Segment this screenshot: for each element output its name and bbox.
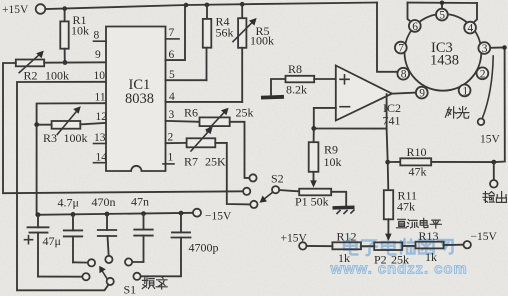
- wire pin 4 to R5 bottom: [166, 101, 243, 103]
- svg-text:3: 3: [169, 109, 175, 121]
- switch S2 middle contact: [243, 188, 250, 195]
- resistor R1 10k: [60, 9, 89, 63]
- svg-text:47n: 47n: [131, 195, 149, 209]
- resistor R12 1k: [332, 230, 361, 266]
- wire +15V top rail: [46, 3, 378, 10]
- IC3 pin 9: [416, 87, 428, 100]
- svg-text:9: 9: [95, 49, 101, 61]
- svg-text:13: 13: [94, 132, 106, 144]
- IC3 1438 ring body: [405, 14, 482, 91]
- node bus C47n junction: [141, 211, 146, 216]
- label 输出 output: [483, 192, 506, 203]
- wire R7 right to S2 bottom contact: [215, 143, 250, 205]
- svg-text:R13: R13: [419, 229, 439, 243]
- pin 8 stub: [94, 30, 107, 42]
- svg-text:6: 6: [412, 21, 418, 33]
- pin 13 stub: [94, 132, 107, 144]
- switch S1 contact C: [82, 273, 89, 280]
- label 直流电平 DC level: [397, 218, 442, 228]
- svg-text:10: 10: [94, 70, 106, 82]
- wire pin3 net to output: [490, 47, 505, 162]
- pin 14 stub: [94, 152, 108, 164]
- resistor R7 25K potentiometer: [166, 127, 227, 169]
- resistor R5 100k potentiometer: [233, 4, 274, 102]
- node feedback R9 junction: [311, 126, 316, 131]
- resistor R10 47k: [388, 145, 494, 179]
- svg-text:R7: R7: [184, 155, 198, 169]
- svg-text:100k: 100k: [64, 131, 88, 145]
- svg-text:3: 3: [482, 43, 488, 55]
- terminal +15V top-left: [2, 4, 45, 16]
- IC3 pin 6: [409, 20, 421, 33]
- resistor R4 56k: [203, 5, 234, 80]
- resistor R8 8.2k: [286, 62, 315, 97]
- node output junction: [491, 160, 496, 165]
- svg-text:S2: S2: [271, 172, 284, 186]
- node R3-pin11 junction: [34, 122, 39, 127]
- svg-text:+15V: +15V: [2, 4, 29, 16]
- svg-text:741: 741: [383, 114, 401, 128]
- capacitor C 47n: [131, 195, 153, 263]
- op-amp IC2 741: [336, 66, 401, 128]
- svg-text:15V: 15V: [480, 134, 501, 146]
- svg-text:4: 4: [468, 23, 474, 35]
- svg-text:25K: 25K: [205, 155, 226, 169]
- terminal -15V middle: [193, 209, 232, 223]
- ground bar at R8: [261, 95, 284, 100]
- svg-text:1438: 1438: [430, 53, 459, 69]
- capacitor C 470n: [92, 195, 117, 256]
- node bus C47u junction: [36, 212, 41, 217]
- wire output vertical to R10 R11: [387, 129, 389, 191]
- switch S2 top contact: [249, 174, 256, 181]
- op-amp IC1 8038 body: [106, 27, 166, 172]
- node rail-R5 junction: [240, 2, 245, 7]
- potentiometer P1 50k: [295, 189, 331, 209]
- svg-text:10k: 10k: [71, 24, 89, 38]
- node rail-R1 junction: [62, 6, 67, 11]
- wire pin 6 up to rail: [166, 5, 186, 60]
- terminal output 输出: [490, 162, 498, 188]
- wire ground to R8: [271, 79, 286, 95]
- svg-text:1: 1: [462, 85, 468, 97]
- svg-text:2: 2: [168, 132, 174, 144]
- node bus C470n junction: [105, 212, 110, 217]
- wire S2 wiper to P1: [279, 190, 299, 191]
- svg-text:25k: 25k: [391, 253, 409, 267]
- resistor R2 100k potentiometer: [16, 51, 69, 83]
- capacitor C 4700p: [141, 213, 219, 276]
- resistor R13 1k: [416, 229, 444, 264]
- wire R8 to op-amp + input: [314, 78, 336, 80]
- svg-text:470n: 470n: [92, 195, 116, 209]
- svg-text:5: 5: [439, 10, 445, 22]
- svg-text:7: 7: [169, 27, 175, 39]
- svg-text:S1: S1: [124, 283, 137, 296]
- IC3 pin 8: [397, 68, 409, 81]
- pin 7 stub: [166, 27, 180, 39]
- svg-text:R2: R2: [24, 69, 38, 83]
- wire R13 to -15V terminal: [444, 244, 464, 246]
- pin 1 stub: [163, 152, 174, 164]
- svg-text:R12: R12: [337, 230, 357, 244]
- svg-text:11: 11: [95, 92, 106, 104]
- svg-text:1: 1: [168, 152, 174, 164]
- wire - input feedback loop: [314, 94, 387, 128]
- wire P1 right to ground: [331, 192, 346, 206]
- wire R3 left to pin11 rail: [37, 124, 52, 126]
- svg-text:P2: P2: [374, 253, 387, 267]
- switch S2 bottom contact: [250, 201, 257, 208]
- resistor R6 25k potentiometer: [166, 106, 254, 132]
- svg-text:4.7μ: 4.7μ: [58, 196, 79, 210]
- svg-text:25k: 25k: [236, 106, 254, 120]
- IC3 pin 3: [478, 42, 490, 55]
- IC3 pin 7: [395, 42, 407, 55]
- svg-text:R3: R3: [43, 131, 57, 145]
- wire R3 right to pin 12: [80, 123, 106, 125]
- wire R2 to pin 9: [44, 61, 106, 63]
- svg-text:−15V: −15V: [471, 231, 498, 243]
- node rail-R4 junction: [205, 3, 210, 8]
- switch S1 contact B: [105, 256, 112, 263]
- label 频率 frequency: [142, 277, 167, 289]
- resistor R3 100k potentiometer: [43, 106, 88, 145]
- svg-text:1k: 1k: [425, 250, 437, 264]
- potentiometer P2 25k: [374, 242, 409, 266]
- svg-text:12: 12: [96, 111, 108, 123]
- svg-text:100k: 100k: [250, 34, 274, 48]
- IC3 pin 1: [459, 85, 471, 98]
- svg-text:14: 14: [96, 152, 108, 164]
- wire pin 5 to R4 bottom: [166, 79, 207, 81]
- terminal -15V bottom right: [464, 231, 498, 248]
- node rail-pin6 junction: [184, 3, 189, 8]
- wire +15V to R12: [307, 245, 333, 247]
- terminal +15V bottom: [281, 233, 308, 250]
- node R1-R2-pin9 junction: [63, 60, 68, 65]
- svg-text:2: 2: [480, 68, 486, 80]
- IC3 case lead arc: [482, 56, 493, 118]
- node IC3 pin5 junction: [440, 1, 445, 6]
- svg-text:P1 50k: P1 50k: [295, 195, 329, 209]
- terminal case 15V: [478, 119, 501, 146]
- svg-text:8038: 8038: [125, 91, 154, 107]
- wire R12 to P2: [361, 245, 374, 247]
- switch S1 contact E: [125, 258, 132, 265]
- svg-text:47k: 47k: [397, 200, 415, 214]
- switch S1 contact A: [88, 259, 95, 266]
- node R10 left junction: [385, 160, 390, 165]
- svg-text:7: 7: [398, 43, 404, 55]
- IC3 pin 5: [436, 9, 448, 22]
- capacitor C 4.7u: [58, 196, 83, 263]
- wire pin 11 down to capacitor bus: [37, 103, 106, 215]
- IC3 pin 4: [464, 22, 476, 35]
- wire C4.7u bottom to S1 contact A: [73, 261, 88, 263]
- svg-text:R6: R6: [184, 106, 198, 120]
- svg-text:1k: 1k: [338, 251, 350, 265]
- wire op-amp output to IC3 pin 9: [392, 93, 416, 94]
- node bus C4700p junction: [179, 211, 184, 216]
- svg-text:9: 9: [419, 88, 425, 100]
- svg-text:R8: R8: [288, 62, 302, 76]
- watermark 电子电路图网: [344, 239, 453, 256]
- svg-text:100k: 100k: [45, 69, 69, 83]
- svg-text:47k: 47k: [409, 165, 427, 179]
- wire P2 to R13: [402, 245, 415, 247]
- svg-text:R10: R10: [407, 145, 427, 159]
- node pin3 corner: [502, 45, 507, 50]
- capacitor C 47u electrolytic: [25, 215, 61, 277]
- wire R2 left to rail down to S2 middle contact: [3, 63, 243, 193]
- svg-text:56k: 56k: [216, 26, 234, 40]
- wire rail to IC3 pin 8: [377, 3, 398, 72]
- svg-text:10k: 10k: [324, 155, 342, 169]
- ground bar at P1: [332, 206, 354, 210]
- svg-text:47μ: 47μ: [43, 234, 61, 248]
- svg-text:−15V: −15V: [205, 211, 232, 223]
- switch S1 pole with arrow: [99, 266, 136, 296]
- IC3 pin 2: [477, 67, 489, 80]
- svg-text:8.2k: 8.2k: [286, 83, 307, 97]
- svg-text:8: 8: [94, 30, 100, 42]
- svg-text:5: 5: [169, 69, 175, 81]
- svg-text:8: 8: [401, 69, 407, 81]
- wire R6 right to S2 top contact: [230, 122, 250, 178]
- node bus C4.7u junction: [71, 212, 76, 217]
- wire pin 10 to S1 pole: [17, 82, 109, 290]
- wire IC3 top line: [408, 3, 478, 23]
- svg-text:4700p: 4700p: [189, 241, 219, 255]
- svg-text:+15V: +15V: [281, 233, 308, 245]
- label 外壳 case: [445, 107, 468, 119]
- resistor R9 10k: [309, 128, 342, 187]
- switch S2 wiper with arrow: [260, 172, 284, 203]
- resistor R11 47k: [384, 189, 417, 241]
- wire capacitor bus: [37, 213, 194, 215]
- wire C47u bottom to S1 contact C: [38, 276, 82, 278]
- switch S1 contact D: [133, 273, 140, 280]
